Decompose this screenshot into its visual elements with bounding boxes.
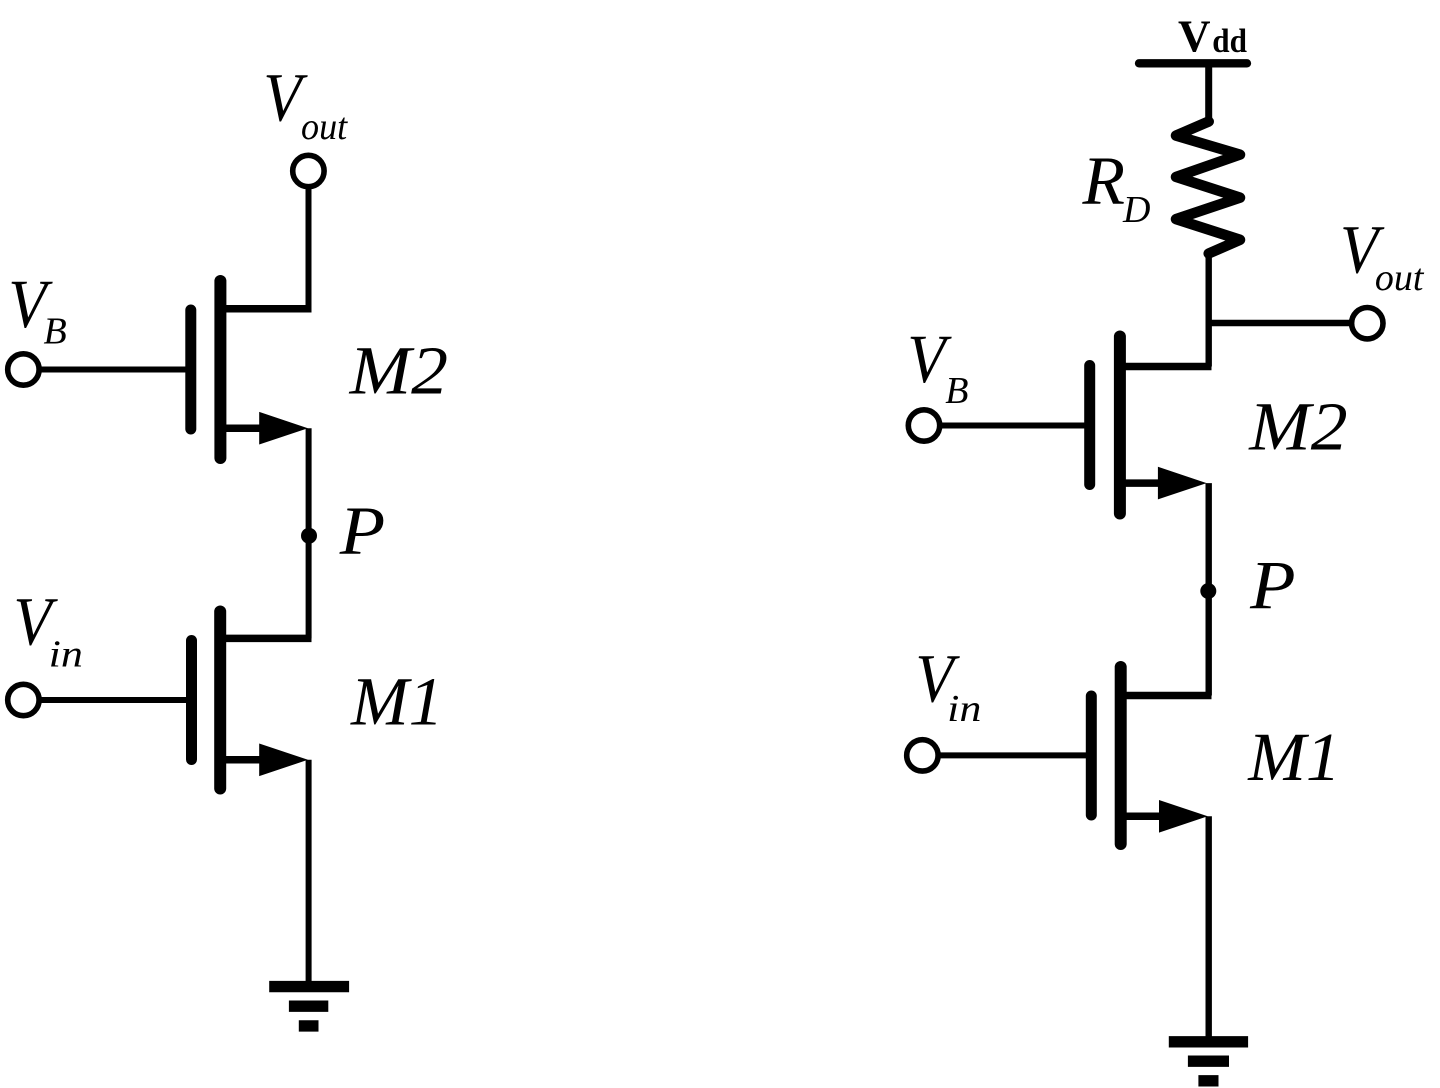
transistor M2 (right) [1090, 337, 1207, 514]
label RD [1081, 143, 1150, 231]
wire output node to Vout terminal (right) [1209, 320, 1351, 326]
node P (right) [1200, 583, 1216, 599]
wire M2 source to M1 drain [306, 428, 312, 638]
label VB (right) [907, 321, 968, 412]
wire Vin to M1 gate (left) [40, 697, 188, 703]
wire Vout terminal to M2 drain [306, 189, 312, 313]
label Vin (left) [13, 584, 82, 676]
wire VB to M2 gate (right) [941, 423, 1087, 429]
terminal Vin (left) [8, 684, 39, 715]
svg-text:dd: dd [1212, 23, 1247, 60]
label Vout (left) [263, 60, 348, 149]
svg-text:R: R [1081, 143, 1125, 219]
ground (right) [1169, 1042, 1248, 1081]
ground (left) [269, 987, 349, 1026]
svg-text:D: D [1122, 189, 1150, 231]
transistor M1 (left) [192, 612, 308, 789]
svg-text:M1: M1 [1247, 719, 1340, 795]
terminal Vin (right) [907, 740, 938, 771]
wire Vin to M1 gate (right) [939, 752, 1088, 758]
terminal Vout (left) [293, 155, 324, 186]
svg-text:B: B [44, 311, 67, 353]
wire M1 drain stub (left) [221, 635, 312, 643]
transistor M2 (left) [191, 281, 308, 458]
power rail Vdd bar [1139, 59, 1247, 67]
label Vin (right) [915, 641, 981, 730]
svg-text:out: out [301, 106, 349, 148]
svg-text:out: out [1375, 257, 1425, 299]
terminal VB (right) [908, 410, 939, 441]
svg-text:in: in [947, 688, 981, 730]
svg-text:P: P [339, 493, 386, 569]
svg-text:M1: M1 [350, 663, 443, 739]
wire RD to M2 drain (right) [1205, 251, 1211, 367]
svg-text:in: in [49, 634, 83, 676]
wire M1 source to ground (left) [306, 760, 312, 987]
wire M1 drain stub (right) [1121, 692, 1212, 700]
label VB (left) [8, 266, 67, 353]
svg-text:M2: M2 [349, 333, 448, 409]
terminal Vout (right) [1352, 308, 1383, 339]
node P (left) [301, 528, 317, 544]
svg-text:P: P [1249, 547, 1296, 623]
wire VB to M2 gate (left) [40, 367, 188, 373]
svg-text:V: V [1178, 11, 1211, 61]
svg-text:B: B [945, 370, 968, 412]
wire M2 drain stub (right) [1121, 363, 1212, 371]
wire M2 source to M1 drain (right) [1205, 483, 1211, 695]
wire Vdd to resistor RD [1205, 63, 1212, 124]
label Vdd [1178, 11, 1247, 61]
terminal VB (left) [8, 354, 39, 385]
wire M2 drain stub [221, 305, 312, 313]
svg-text:M2: M2 [1248, 389, 1347, 465]
wire M1 source to ground (right) [1205, 816, 1211, 1042]
transistor M1 (right) [1091, 667, 1207, 844]
label Vout (right) [1340, 212, 1425, 299]
resistor RD [1176, 122, 1240, 254]
